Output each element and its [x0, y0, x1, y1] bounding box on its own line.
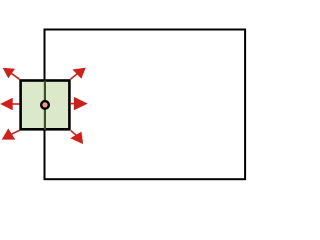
E arrow [70, 98, 86, 110]
center vertex circle [41, 101, 49, 109]
NE arrow [71, 68, 86, 79]
rectangle (page frame) [45, 30, 246, 180]
snap square [21, 81, 70, 130]
W arrow [1, 99, 19, 110]
NW arrow [4, 68, 20, 79]
edge line through square [44, 81, 46, 130]
SW arrow [3, 129, 20, 139]
page background [0, 0, 262, 206]
SE arrow [71, 131, 83, 144]
